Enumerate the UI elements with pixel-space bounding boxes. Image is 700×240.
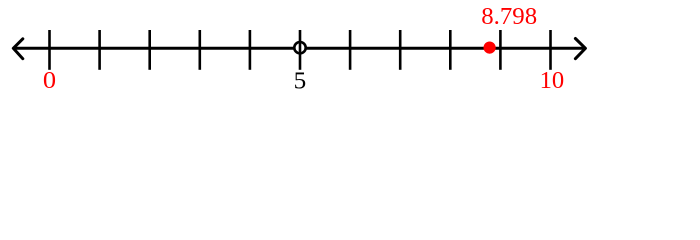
tick 1 [98, 30, 101, 70]
tick 0 [48, 30, 51, 70]
tick 9 [499, 30, 502, 70]
tick 2 [148, 30, 151, 70]
svg-text:8.798: 8.798 [481, 4, 537, 30]
svg-text:5: 5 [294, 68, 307, 94]
axis line [13, 47, 585, 50]
tick 5 [299, 30, 302, 70]
open circle at 5 [294, 42, 305, 53]
red point at 8.798 [484, 42, 496, 54]
tick 7 [399, 30, 402, 70]
tick 8 [449, 30, 452, 70]
tick 10 [549, 30, 552, 70]
svg-text:10: 10 [540, 68, 565, 94]
svg-text:0: 0 [43, 68, 56, 94]
right arrowhead [575, 39, 585, 59]
tick 4 [249, 30, 252, 70]
tick 3 [199, 30, 202, 70]
left arrowhead [13, 39, 22, 59]
tick 6 [349, 30, 352, 70]
